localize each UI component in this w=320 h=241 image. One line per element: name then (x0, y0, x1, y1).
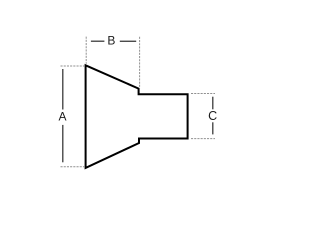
dimension line B right segment (120, 40, 136, 42)
extension line A bottom (61, 166, 85, 168)
svg-text:A: A (58, 110, 66, 124)
svg-text:C: C (208, 109, 217, 123)
extension line A top (61, 65, 85, 67)
extension line B right (139, 37, 141, 89)
part outline (tapered plug profile) (86, 65, 188, 168)
dimension line B left segment (91, 40, 105, 42)
svg-text:B: B (107, 34, 115, 48)
extension line C bottom (191, 138, 215, 140)
dimension line C upper segment (212, 97, 214, 110)
dimension line A upper segment (62, 69, 64, 110)
extension line B left (85, 37, 87, 64)
dimension line C lower segment (212, 122, 214, 134)
extension line C top (191, 93, 215, 95)
dimension line A lower segment (62, 125, 64, 162)
